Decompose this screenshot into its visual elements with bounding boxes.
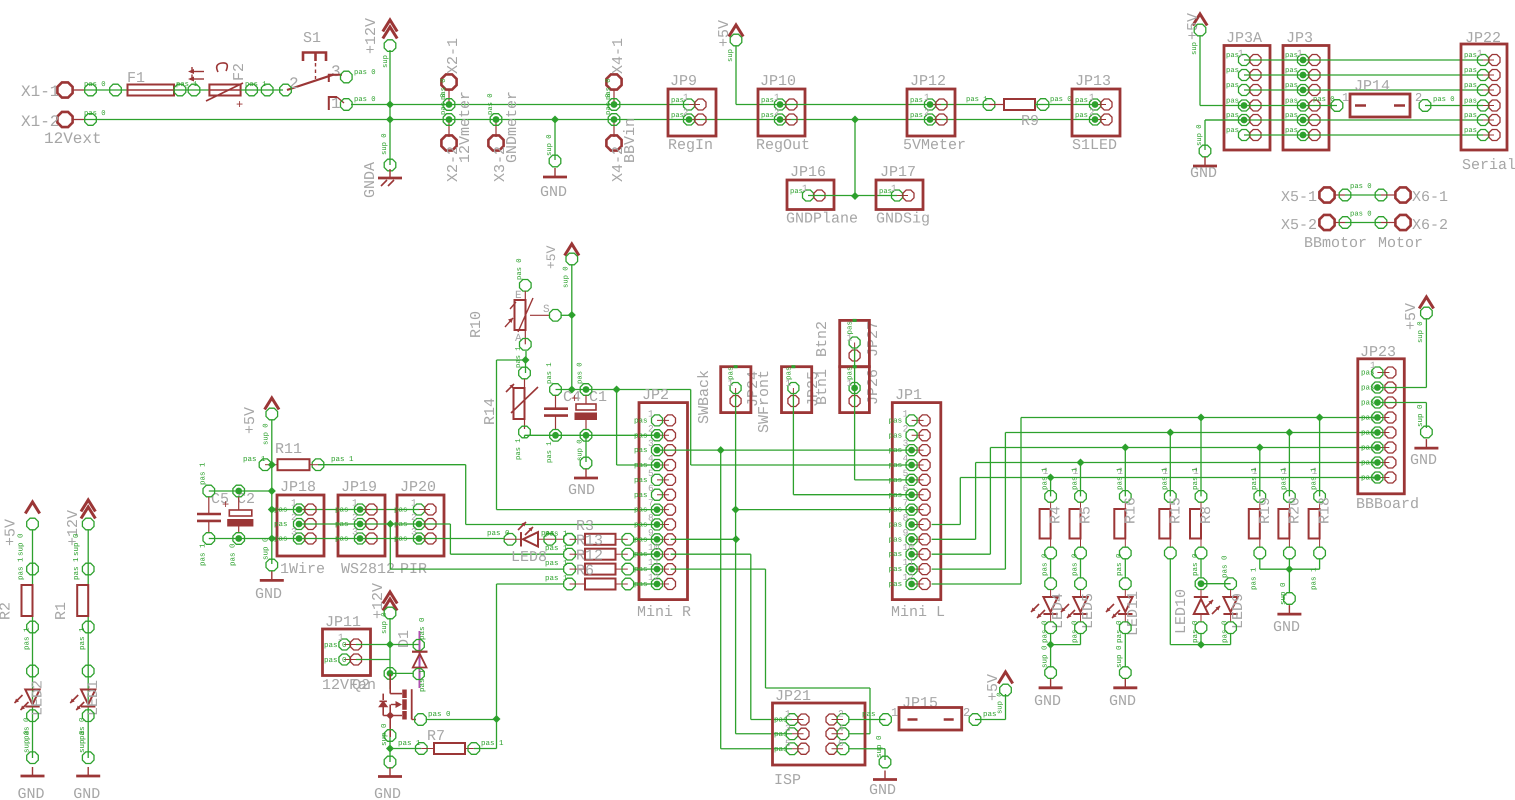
svg-text:pas: pas <box>335 521 349 529</box>
svg-text:pas 1: pas 1 <box>398 740 421 748</box>
connector X3-2 / GNDmeter <box>488 135 503 150</box>
junction wiper <box>568 311 576 319</box>
wire JP1 pin10 to bus <box>932 553 991 555</box>
svg-text:9: 9 <box>648 527 654 538</box>
svg-text:pas: pas <box>889 536 903 544</box>
wire sensors 5V rail <box>272 509 420 511</box>
svg-text:pas 0: pas 0 <box>1350 211 1372 219</box>
svg-text:pas 1: pas 1 <box>245 81 267 89</box>
svg-text:ISP: ISP <box>774 772 801 789</box>
supply +5V regulator <box>729 25 743 37</box>
svg-text:pas: pas <box>1285 98 1298 106</box>
svg-text:BBBoard: BBBoard <box>1356 496 1419 513</box>
svg-text:R8: R8 <box>1198 506 1215 524</box>
wire gate <box>412 719 416 721</box>
svg-text:pas: pas <box>847 321 855 335</box>
svg-text:pas: pas <box>862 711 876 719</box>
junction <box>613 386 621 394</box>
junction <box>386 745 394 753</box>
junction <box>717 446 725 454</box>
svg-text:pas: pas <box>889 551 903 559</box>
svg-text:1: 1 <box>774 92 780 103</box>
supply +12V <box>383 20 397 32</box>
junction <box>1047 641 1055 649</box>
svg-text:1: 1 <box>924 92 930 103</box>
svg-text:pas: pas <box>634 417 648 425</box>
wire PIR out to R13 <box>449 524 451 554</box>
svg-text:F2: F2 <box>231 63 248 81</box>
svg-text:2: 2 <box>774 107 780 118</box>
svg-text:sup 0: sup 0 <box>1115 645 1124 668</box>
svg-text:GNDA: GNDA <box>362 162 379 198</box>
svg-text:GNDSig: GNDSig <box>876 211 930 228</box>
svg-text:pas: pas <box>1226 52 1239 60</box>
svg-text:2: 2 <box>838 709 844 720</box>
resistor R5 <box>1077 459 1085 467</box>
svg-text:RegIn: RegIn <box>668 137 713 154</box>
wire GND bus <box>73 119 85 121</box>
wire WS2812 data to R12 <box>389 524 391 569</box>
wire 5V to JP1 pin4 <box>690 390 692 466</box>
svg-text:GND: GND <box>869 782 896 799</box>
wire cap bottom rail / JP18 gnd <box>209 538 299 540</box>
svg-text:sup: sup <box>727 49 735 62</box>
svg-text:pas 0: pas 0 <box>487 529 510 538</box>
svg-text:GNDmeter: GNDmeter <box>504 91 521 163</box>
wire JP1 pin8 to bus <box>932 524 961 526</box>
svg-text:3: 3 <box>331 63 341 81</box>
svg-text:+: + <box>236 98 243 112</box>
svg-text:pas: pas <box>634 462 648 470</box>
svg-text:JP9: JP9 <box>670 73 697 90</box>
svg-text:pas: pas <box>889 432 903 440</box>
svg-text:sup 0: sup 0 <box>380 723 389 746</box>
svg-text:12Vext: 12Vext <box>44 130 102 148</box>
svg-text:pas: pas <box>1464 98 1477 106</box>
svg-text:A: A <box>515 333 522 345</box>
wire R10 to R14 <box>525 351 527 360</box>
fuse F2 <box>209 85 240 96</box>
svg-text:pas: pas <box>634 492 648 500</box>
svg-text:pas 0: pas 0 <box>1115 553 1124 576</box>
svg-text:11: 11 <box>903 557 915 568</box>
svg-text:pas 1: pas 1 <box>545 545 568 553</box>
svg-text:sup 0: sup 0 <box>381 133 389 155</box>
wire SWFront to JP1 pin6 <box>792 394 794 495</box>
wire pot tap to JP2 pin7 <box>497 359 526 361</box>
svg-text:R10: R10 <box>468 311 485 338</box>
svg-text:GND: GND <box>374 786 401 800</box>
svg-text:JP27: JP27 <box>865 321 882 357</box>
junction <box>268 506 276 514</box>
svg-text:4: 4 <box>903 453 909 464</box>
junction <box>1197 641 1205 649</box>
svg-text:pas: pas <box>761 112 774 120</box>
junction <box>268 535 276 543</box>
svg-text:X2-1: X2-1 <box>445 38 462 74</box>
wire R18 down <box>1319 559 1321 569</box>
svg-text:pas: pas <box>1464 67 1477 75</box>
svg-text:R1: R1 <box>53 602 70 620</box>
svg-text:S1: S1 <box>303 30 321 47</box>
resistor R4 <box>1047 474 1055 482</box>
svg-text:6: 6 <box>838 738 844 749</box>
svg-text:pas 0: pas 0 <box>84 81 106 89</box>
svg-text:WS2812: WS2812 <box>341 561 395 578</box>
resistor R8 <box>1197 414 1205 422</box>
svg-text:JP12: JP12 <box>910 73 946 90</box>
svg-text:1: 1 <box>1477 48 1483 59</box>
svg-text:pas: pas <box>889 447 903 455</box>
svg-text:pas: pas <box>1464 127 1477 135</box>
wire 12V bus <box>390 104 689 106</box>
svg-text:3: 3 <box>291 527 297 538</box>
junction <box>386 641 394 649</box>
wire cap top rail <box>209 490 272 492</box>
svg-text:GND: GND <box>73 786 100 800</box>
wire ISP pin6 to gnd <box>849 748 885 750</box>
svg-text:JP20: JP20 <box>400 479 436 496</box>
svg-text:1: 1 <box>411 498 417 509</box>
svg-text:JP15: JP15 <box>902 695 938 712</box>
svg-text:pas 1: pas 1 <box>73 557 81 580</box>
junction <box>386 116 394 124</box>
svg-text:pas 0: pas 0 <box>1350 183 1372 191</box>
svg-text:4: 4 <box>838 723 844 734</box>
svg-text:pas 1: pas 1 <box>243 456 266 464</box>
junction <box>386 101 394 109</box>
wire R9 to JP13 <box>1043 104 1095 106</box>
svg-text:pas: pas <box>671 97 684 105</box>
svg-text:pas: pas <box>1361 460 1375 468</box>
svg-text:LED11: LED11 <box>1125 591 1142 636</box>
svg-text:pas 1: pas 1 <box>1280 467 1288 490</box>
svg-text:R2: R2 <box>0 602 15 620</box>
svg-text:2: 2 <box>924 107 930 118</box>
svg-text:2: 2 <box>291 512 297 523</box>
svg-text:pas: pas <box>634 551 648 559</box>
resistor R15 <box>1166 429 1174 437</box>
svg-text:R18: R18 <box>1317 497 1334 524</box>
connector X2-2 / 12Vmeter <box>441 74 456 89</box>
svg-text:D1: D1 <box>396 630 413 648</box>
svg-text:pas 1: pas 1 <box>176 81 198 89</box>
svg-text:pas 1: pas 1 <box>200 543 208 566</box>
svg-text:pas: pas <box>394 521 408 529</box>
wire gnd row to LED8 <box>299 538 504 540</box>
svg-text:pas 1: pas 1 <box>481 740 504 748</box>
svg-text:pas: pas <box>1361 430 1375 438</box>
svg-text:pas: pas <box>774 746 788 754</box>
svg-text:pas: pas <box>634 581 648 589</box>
svg-text:8: 8 <box>648 512 654 523</box>
wire JP1 pin9 to bus <box>932 538 976 540</box>
svg-text:sup 0: sup 0 <box>263 423 271 445</box>
wire R6 feed <box>496 584 498 749</box>
svg-text:pas: pas <box>1226 67 1239 75</box>
led LED8 <box>504 534 516 546</box>
svg-text:pas: pas <box>1464 82 1477 90</box>
svg-text:pas: pas <box>394 507 408 515</box>
wire Btn to JP1 pin5 <box>854 348 856 480</box>
svg-text:pas 0: pas 0 <box>1050 96 1072 104</box>
svg-text:pas: pas <box>1361 445 1375 453</box>
wire JP2 pin3 to JP1 pin3 <box>657 449 912 451</box>
svg-text:pas 1: pas 1 <box>1116 467 1124 490</box>
wire JP1 pin11 to bus <box>932 568 1006 570</box>
svg-text:1: 1 <box>1089 92 1095 103</box>
svg-text:2: 2 <box>411 512 417 523</box>
svg-text:5: 5 <box>648 468 654 479</box>
svg-text:sup 0: sup 0 <box>1196 124 1204 146</box>
svg-text:6: 6 <box>903 483 909 494</box>
svg-text:R19: R19 <box>1257 497 1274 524</box>
wire +12V down <box>389 50 391 165</box>
svg-text:pas 0: pas 0 <box>1040 620 1049 643</box>
svg-text:pas: pas <box>889 581 903 589</box>
svg-text:R9: R9 <box>1021 113 1039 130</box>
svg-text:JP16: JP16 <box>790 164 826 181</box>
svg-text:pas 1: pas 1 <box>79 627 87 650</box>
wire 5V bus <box>780 104 989 106</box>
svg-text:pas: pas <box>1361 385 1375 393</box>
svg-text:pas 0: pas 0 <box>516 258 524 280</box>
svg-text:R4: R4 <box>1048 506 1065 524</box>
svg-text:pas: pas <box>634 477 648 485</box>
svg-text:GND: GND <box>1190 165 1217 182</box>
svg-text:Serial: Serial <box>1462 157 1515 174</box>
svg-text:pas: pas <box>274 507 288 515</box>
svg-text:sup 0: sup 0 <box>875 735 884 758</box>
junction <box>384 668 396 680</box>
svg-text:pas 0: pas 0 <box>324 641 347 650</box>
svg-text:GND: GND <box>1034 693 1061 710</box>
svg-text:pas 0: pas 0 <box>229 543 238 566</box>
LED column R1/LED1 <box>81 500 95 512</box>
svg-text:pas 0: pas 0 <box>428 710 451 719</box>
wire data row <box>299 523 450 525</box>
svg-text:5VMeter: 5VMeter <box>903 137 966 154</box>
svg-text:7: 7 <box>903 498 909 509</box>
svg-text:pas: pas <box>761 97 774 105</box>
svg-text:pas 1: pas 1 <box>966 96 988 104</box>
svg-text:pas: pas <box>634 447 648 455</box>
svg-text:JP26: JP26 <box>865 369 882 405</box>
polarity arrows above F2 <box>190 71 204 73</box>
svg-text:sup 0: sup 0 <box>563 266 571 288</box>
supply +5V sensors <box>265 398 279 410</box>
svg-text:2: 2 <box>648 423 654 434</box>
resistor R19 <box>1256 444 1264 452</box>
wire +5V to JP3A <box>1199 36 1201 106</box>
svg-text:LED9: LED9 <box>1230 593 1247 629</box>
svg-text:pas 1: pas 1 <box>1192 467 1200 490</box>
svg-text:Motor: Motor <box>1378 235 1423 252</box>
svg-text:sup: sup <box>1191 42 1199 55</box>
svg-text:pas: pas <box>1285 112 1298 120</box>
svg-text:pas: pas <box>1226 82 1239 90</box>
svg-text:R16: R16 <box>1122 497 1139 524</box>
svg-text:Mini R: Mini R <box>637 604 691 621</box>
svg-text:2: 2 <box>352 512 358 523</box>
svg-text:X6-1: X6-1 <box>1412 189 1448 206</box>
svg-text:pas 1: pas 1 <box>546 441 554 463</box>
svg-text:1: 1 <box>891 706 898 720</box>
svg-text:sup 0: sup 0 <box>78 730 87 753</box>
svg-text:pas 1: pas 1 <box>1161 467 1169 490</box>
svg-text:pas 1: pas 1 <box>546 362 554 384</box>
svg-text:pas: pas <box>335 507 349 515</box>
svg-text:X4-1: X4-1 <box>610 38 627 74</box>
svg-text:+12V: +12V <box>363 18 380 54</box>
svg-text:pas: pas <box>634 566 648 574</box>
svg-text:pas: pas <box>1464 112 1477 120</box>
svg-text:GND: GND <box>18 786 45 800</box>
wire S1 pin1 to +12V rail <box>351 104 390 106</box>
ground ISP <box>879 756 891 768</box>
svg-text:pas 0: pas 0 <box>1070 553 1079 576</box>
svg-text:pas: pas <box>1285 82 1298 90</box>
wire JP2 pin11 stub <box>671 568 766 570</box>
svg-text:2: 2 <box>1415 91 1422 105</box>
svg-text:pas 0: pas 0 <box>605 93 613 115</box>
wire to GND headers <box>854 120 856 197</box>
svg-text:pas: pas <box>889 566 903 574</box>
wire X1-1 to F1 <box>73 89 85 91</box>
svg-text:sup 0: sup 0 <box>996 692 1004 714</box>
svg-text:pas: pas <box>879 188 892 196</box>
led LED5 <box>1080 559 1082 578</box>
svg-text:pas: pas <box>910 112 923 120</box>
svg-text:pas: pas <box>847 366 855 380</box>
junction <box>1285 565 1293 573</box>
svg-text:pas 0: pas 0 <box>1191 553 1200 576</box>
svg-text:sup 0: sup 0 <box>546 134 554 156</box>
wire fan 12V <box>389 618 391 689</box>
svg-text:+5V: +5V <box>242 407 259 434</box>
wire ISP MISO <box>735 510 737 734</box>
svg-text:1: 1 <box>352 498 358 509</box>
svg-text:Btn1: Btn1 <box>814 369 831 405</box>
svg-text:pas: pas <box>728 366 736 380</box>
wire cap gnd rail <box>525 434 658 436</box>
wire F2 to S1 <box>241 89 283 91</box>
junction <box>568 386 576 394</box>
svg-text:12: 12 <box>903 572 915 583</box>
ground LED4/5 <box>1045 667 1057 679</box>
svg-text:GNDPlane: GNDPlane <box>786 211 858 228</box>
LED column R2/LED2 <box>25 502 39 514</box>
svg-text:pas: pas <box>1226 127 1239 135</box>
svg-text:R6: R6 <box>576 563 594 580</box>
svg-text:pas: pas <box>634 521 648 529</box>
svg-text:JP13: JP13 <box>1075 73 1111 90</box>
svg-text:GND: GND <box>540 184 567 201</box>
svg-text:GND: GND <box>1273 619 1300 636</box>
svg-text:pas 0: pas 0 <box>1040 553 1049 576</box>
resistor R20 <box>1285 429 1293 437</box>
wire LED8 to R3 <box>538 538 564 540</box>
svg-text:sup 0: sup 0 <box>23 730 32 753</box>
svg-text:pas 1: pas 1 <box>18 557 26 580</box>
svg-text:X5-2: X5-2 <box>1281 217 1317 234</box>
svg-text:12: 12 <box>648 572 660 583</box>
svg-text:sup 0: sup 0 <box>1040 645 1049 668</box>
svg-text:pas: pas <box>1226 98 1239 106</box>
ground sensors <box>266 559 278 571</box>
wire 5V to JP2 pin4 <box>616 390 618 466</box>
ground GND center <box>554 120 556 161</box>
wire R15 to LED rail <box>1169 559 1171 645</box>
svg-text:+: + <box>222 498 229 512</box>
svg-text:pas: pas <box>671 112 684 120</box>
svg-text:pas 0: pas 0 <box>324 656 347 665</box>
connector X4-2 / BBVin <box>606 74 621 89</box>
svg-text:X1-1: X1-1 <box>21 83 59 101</box>
svg-text:pas 1: pas 1 <box>515 346 523 368</box>
svg-text:pas: pas <box>1361 475 1375 483</box>
svg-text:GND: GND <box>255 586 282 603</box>
junction <box>386 520 394 528</box>
svg-text:pas: pas <box>910 97 923 105</box>
svg-text:3: 3 <box>352 527 358 538</box>
svg-text:pas 1: pas 1 <box>545 560 568 568</box>
svg-text:pas 1: pas 1 <box>1310 567 1318 590</box>
svg-text:pas: pas <box>889 462 903 470</box>
svg-text:pas 1: pas 1 <box>1311 467 1319 490</box>
svg-text:4: 4 <box>648 453 654 464</box>
svg-text:pas: pas <box>889 477 903 485</box>
svg-text:2: 2 <box>1089 107 1095 118</box>
supply +5V right <box>1193 14 1207 26</box>
wire sensor 5V down <box>271 420 273 564</box>
svg-text:R14: R14 <box>482 398 499 425</box>
svg-text:pas: pas <box>634 507 648 515</box>
svg-text:9: 9 <box>903 527 909 538</box>
svg-text:sup 0: sup 0 <box>72 533 81 556</box>
svg-text:1: 1 <box>1370 360 1376 371</box>
svg-text:LED10: LED10 <box>1173 589 1190 634</box>
svg-text:pas 0: pas 0 <box>418 617 427 640</box>
svg-text:pas: pas <box>1285 127 1298 135</box>
connector pad X1-1 <box>57 82 72 97</box>
svg-text:pas 1: pas 1 <box>1072 467 1080 490</box>
supply +5V mid <box>565 244 579 256</box>
ground BBBoard <box>1421 426 1433 438</box>
wire +5V to JP10 <box>735 46 737 105</box>
junction <box>551 116 559 124</box>
svg-text:X1-2: X1-2 <box>21 113 59 131</box>
junction <box>732 535 740 543</box>
wire R19 to gnd rail <box>1259 559 1261 569</box>
junction <box>851 116 859 124</box>
svg-text:pas: pas <box>274 521 288 529</box>
svg-text:pas: pas <box>634 536 648 544</box>
svg-text:pas 0: pas 0 <box>1070 620 1079 643</box>
svg-text:GND: GND <box>1410 452 1437 469</box>
svg-text:BBmotor: BBmotor <box>1304 235 1367 252</box>
wire JP16 to JP17 <box>808 195 897 197</box>
svg-text:JP18: JP18 <box>280 479 316 496</box>
svg-text:LED1: LED1 <box>85 680 102 716</box>
connector pad X1-2 <box>57 112 72 127</box>
svg-text:2: 2 <box>903 423 909 434</box>
svg-text:11: 11 <box>648 557 660 568</box>
svg-text:sup: sup <box>382 55 390 68</box>
wire R11 to JP2 pin8 <box>318 464 466 466</box>
svg-text:JP14: JP14 <box>1354 78 1390 95</box>
svg-text:pas: pas <box>889 521 903 529</box>
